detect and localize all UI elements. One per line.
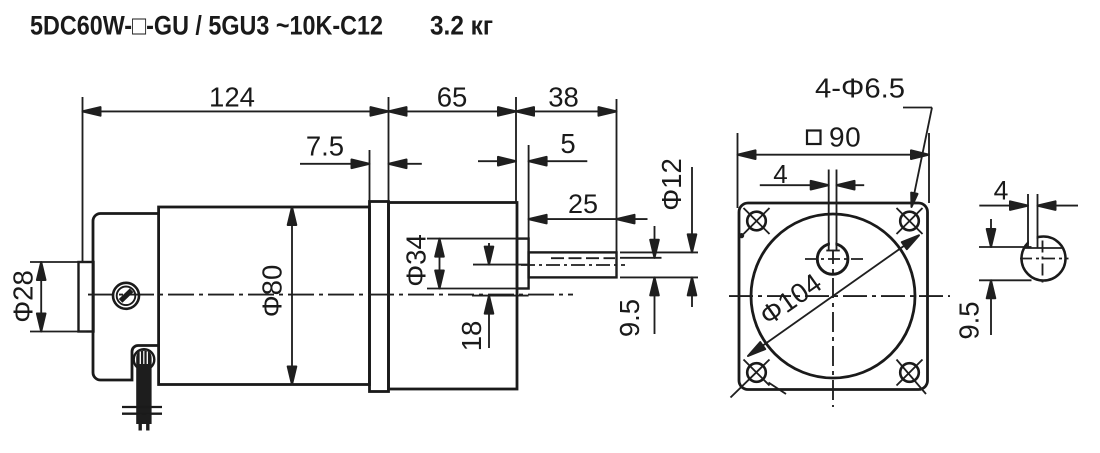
svg-text:124: 124 [209,82,255,113]
key lines front [828,170,830,251]
corner hole TR [897,208,923,234]
output shaft [529,252,617,277]
shaft flat hidden line [551,257,615,259]
output boss [517,239,529,289]
svg-text:Φ80: Φ80 [257,265,288,318]
shaft centerline [521,264,625,266]
shaft horizontal centerline [805,258,867,260]
extension line shaft end [616,99,618,279]
detail shaft circle [1022,237,1066,281]
dim line 124 [83,110,389,112]
svg-text:Φ12: Φ12 [656,158,687,211]
keyway slot knockout [830,242,836,250]
rear cap with wire notch [93,214,159,381]
dim line 38 [516,110,617,112]
corner hole BL [731,360,787,398]
svg-text:Φ34: Φ34 [401,234,432,287]
dim line 65 [389,110,517,112]
detail dim 9.5 [979,246,1032,248]
wire ends [138,414,141,431]
keyway bottom chord [826,250,840,252]
dim square90 [737,133,739,208]
wire grommet [134,349,155,370]
detail key lines [1027,194,1029,248]
svg-text:5DC60W-□-GU / 5GU3 ~10K-C12: 5DC60W-□-GU / 5GU3 ~10K-C12 [30,11,383,41]
svg-text:25: 25 [568,189,598,219]
phi104 dim line [748,235,919,356]
detail dim 4 [979,205,1028,207]
svg-text:65: 65 [437,82,468,113]
motor centerline [88,294,573,296]
motor body [159,207,370,385]
svg-text:4: 4 [994,176,1009,206]
motor horizontal centerline [729,295,950,297]
rear hub [79,262,94,332]
extension line gearbox face [515,97,517,203]
detail flat chord [1024,247,1063,249]
svg-text:5: 5 [560,128,575,159]
corner hole TL [740,208,770,237]
svg-text:18: 18 [456,321,487,352]
gear housing circle [751,214,915,378]
extension line left of hub [82,97,84,262]
svg-text:7.5: 7.5 [306,131,344,162]
detail crosshair [1020,258,1069,260]
lead wires bundle [122,351,162,431]
mounting plate [739,203,928,390]
svg-text:9.5: 9.5 [614,299,645,337]
front vertical centerline [832,244,834,407]
extension line motor/gear joint [388,97,390,202]
dim 4 front (key width) [760,184,829,186]
corner hole BR [897,360,927,395]
svg-text:Φ28: Φ28 [8,270,39,323]
svg-text:9.5: 9.5 [954,301,985,339]
wire clamp plate [122,406,162,408]
svg-text:4: 4 [773,159,787,189]
screw on cap [113,283,139,309]
gearbox body [389,203,518,390]
detail keyway slot knockout [1029,234,1037,247]
front shaft circle [817,244,848,275]
svg-text:4-Φ6.5: 4-Φ6.5 [815,73,905,104]
svg-text:38: 38 [548,82,579,113]
svg-text:90: 90 [829,122,861,153]
svg-text:3.2 кг: 3.2 кг [430,11,493,41]
gearbox flange ring 7.5 [370,202,389,392]
